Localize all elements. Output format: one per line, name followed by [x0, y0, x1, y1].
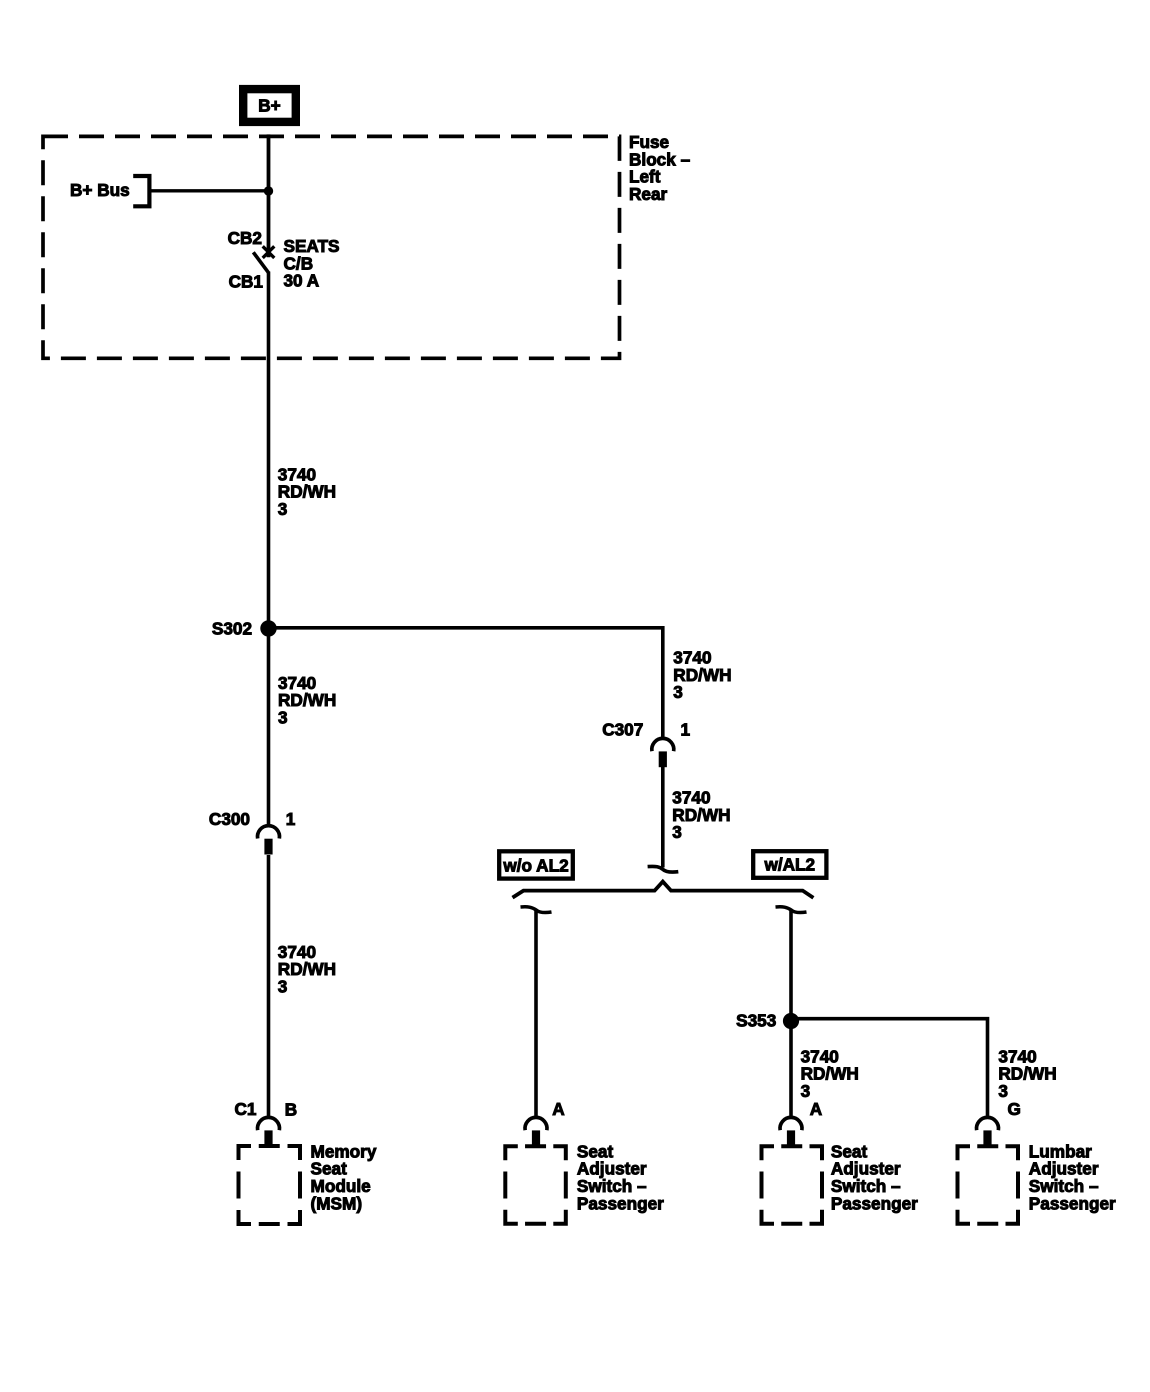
label C1	[235, 1099, 257, 1119]
wire label 3740 RD/WH 3 (S353 to seat switch)	[801, 1046, 859, 1101]
svg-text:Rear: Rear	[629, 184, 668, 204]
connector at lumbar adjuster switch	[977, 1117, 999, 1146]
lumbar adjuster switch - passenger dashed box	[958, 1146, 1019, 1223]
svg-text:C1: C1	[235, 1099, 257, 1119]
svg-text:3: 3	[672, 822, 682, 842]
label terminal A (w/AL2 seat switch)	[810, 1099, 822, 1119]
svg-text:B: B	[285, 1100, 297, 1120]
wire label 3740 RD/WH 3 (B+ feed)	[278, 464, 336, 519]
B+ Bus terminal bracket	[133, 176, 149, 206]
label C307	[602, 720, 643, 740]
B+ Bus label	[70, 180, 130, 200]
wire label 3740 RD/WH 3 (C300 to MSM)	[278, 942, 336, 997]
label pin 1 of C300	[286, 809, 296, 829]
wire: C307 to options split	[661, 765, 665, 867]
fuse block label	[629, 132, 691, 204]
junction: bus tap on B+ feed	[264, 186, 273, 195]
svg-text:3: 3	[278, 977, 288, 997]
wire: w/AL2 branch down to splice S353	[789, 909, 793, 1021]
wire: w/o AL2 branch down to seat adjuster switch	[534, 909, 538, 1117]
connector at seat adjuster switch (w/o AL2)	[525, 1117, 547, 1146]
seat adjuster switch (w/AL2) label	[831, 1141, 918, 1213]
seat adjuster switch - passenger (w/AL2) dashed box	[762, 1146, 823, 1223]
wire: S353 down to seat adjuster switch	[789, 1021, 793, 1117]
wire: CB1 down through fuse block to splice S302	[267, 272, 271, 630]
svg-text:C300: C300	[209, 809, 250, 829]
wire label 3740 RD/WH 3 (C307 to switches)	[672, 788, 730, 843]
wire break at w/o AL2 branch	[521, 907, 552, 913]
label C300	[209, 809, 250, 829]
wire: S353 right branch over and down to lumbar switch	[791, 1019, 988, 1117]
svg-text:B+: B+	[258, 96, 280, 116]
lumbar adjuster switch label	[1029, 1141, 1116, 1213]
label CB2	[228, 228, 262, 248]
label terminal B (MSM)	[285, 1100, 297, 1120]
label S302	[212, 618, 252, 638]
svg-text:3: 3	[278, 499, 288, 519]
circuit breaker contact X (CB2 terminal)	[263, 246, 275, 258]
seat adjuster switch - passenger (w/o AL2) dashed box	[505, 1146, 566, 1223]
svg-text:1: 1	[286, 809, 296, 829]
label pin 1 of C307	[681, 720, 691, 740]
wire: S302 right branch over and down to C307	[269, 628, 663, 738]
svg-text:G: G	[1008, 1099, 1021, 1119]
circuit breaker arm (CB2 to CB1)	[253, 252, 268, 272]
svg-text:B+ Bus: B+ Bus	[70, 180, 130, 200]
svg-text:Passenger: Passenger	[831, 1193, 918, 1213]
wire: B+ feed into fuse block down to breaker	[267, 134, 271, 257]
svg-text:C307: C307	[602, 720, 643, 740]
memory seat module label	[311, 1141, 377, 1213]
wire break at w/AL2 branch	[776, 907, 807, 913]
svg-text:CB1: CB1	[229, 272, 264, 292]
label SEATS C/B 30 A	[284, 236, 340, 291]
svg-text:w/AL2: w/AL2	[763, 855, 815, 875]
label CB1	[229, 272, 264, 292]
wire: B+ bus to main feed	[149, 189, 268, 192]
svg-text:CB2: CB2	[228, 228, 262, 248]
wire: S302 down to connector C300	[267, 628, 271, 826]
svg-text:1: 1	[681, 720, 691, 740]
connector at seat adjuster switch (w/AL2)	[780, 1117, 802, 1146]
splice S302 dot	[260, 620, 276, 636]
svg-text:w/o AL2: w/o AL2	[502, 855, 568, 875]
seat adjuster switch (w/o AL2) label	[577, 1141, 664, 1213]
connector C307 pin 1	[652, 738, 674, 767]
label terminal G (lumbar switch)	[1008, 1099, 1021, 1119]
splice S353 dot	[783, 1013, 799, 1029]
svg-text:A: A	[552, 1099, 564, 1119]
power feed B+ box	[243, 89, 296, 122]
option box w/AL2	[753, 851, 826, 878]
fuse block - left rear (dashed outline)	[43, 136, 620, 358]
svg-text:(MSM): (MSM)	[311, 1193, 363, 1213]
wire label 3740 RD/WH 3 (S302 to C307)	[673, 648, 731, 703]
svg-text:A: A	[810, 1099, 822, 1119]
connector C300 pin 1	[258, 826, 280, 855]
svg-text:3: 3	[278, 707, 288, 727]
svg-text:Passenger: Passenger	[577, 1193, 664, 1213]
options split brace	[513, 882, 814, 898]
connector C1 terminal B at MSM	[258, 1117, 280, 1146]
wire: C300 down to MSM connector C1	[267, 855, 271, 1117]
option box w/o AL2	[499, 851, 573, 878]
svg-text:S353: S353	[736, 1011, 776, 1031]
wire label 3740 RD/WH 3 (S353 to lumbar switch)	[998, 1046, 1056, 1101]
svg-text:S302: S302	[212, 618, 252, 638]
svg-text:3: 3	[801, 1081, 811, 1101]
svg-text:3: 3	[998, 1081, 1008, 1101]
svg-text:Passenger: Passenger	[1029, 1193, 1116, 1213]
label terminal A (w/o AL2 switch)	[552, 1099, 564, 1119]
wire label 3740 RD/WH 3 (S302 to C300)	[278, 673, 336, 728]
memory seat module (MSM) dashed box	[239, 1146, 301, 1224]
wire break at options split (feed side)	[648, 866, 679, 872]
svg-text:3: 3	[673, 682, 683, 702]
label S353	[736, 1011, 776, 1031]
svg-text:30 A: 30 A	[284, 271, 320, 291]
